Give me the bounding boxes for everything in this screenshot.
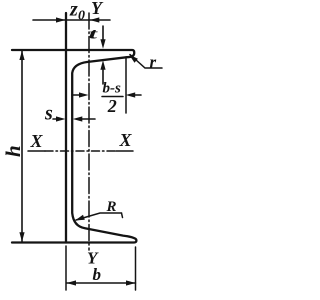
channel profile outline bbox=[12, 50, 136, 243]
arrow R leader (points down-left) bbox=[75, 215, 85, 221]
s dimension right tail bbox=[80, 118, 95, 120]
Y axis (dash-dot centerline) bbox=[88, 13, 90, 250]
X axis dash-dot centerline bbox=[28, 150, 45, 152]
svg-text:s: s bbox=[44, 103, 53, 125]
arrow h down bbox=[19, 232, 24, 242]
bottom h extension line bbox=[12, 242, 66, 244]
arrow (b-s)/2 right (points left) bbox=[126, 92, 136, 97]
web outer face with z0 extension above bbox=[65, 13, 67, 243]
t dimension upper line bbox=[102, 26, 104, 41]
b left extension line bbox=[65, 246, 67, 290]
arrow b right (points right) bbox=[126, 280, 136, 285]
z0 dimension line left part bbox=[33, 19, 110, 21]
arrow b left (points left) bbox=[67, 280, 77, 285]
arrow s right (points left) bbox=[73, 116, 83, 121]
arrow z0 right (points left) bbox=[90, 17, 100, 22]
(b-s)/2 dimension right tail bbox=[133, 94, 141, 96]
arrow t down bbox=[100, 39, 105, 49]
svg-text:2: 2 bbox=[107, 96, 117, 116]
R leader line with shelf bbox=[76, 213, 123, 220]
arrow z0 left (points right) bbox=[56, 17, 66, 22]
svg-text:z: z bbox=[69, 0, 78, 21]
t dimension lower line bbox=[102, 68, 104, 84]
arrow h up bbox=[19, 51, 24, 61]
s dimension left line bbox=[53, 118, 58, 120]
fraction bar of (b-s)/2 bbox=[102, 96, 123, 98]
svg-text:X: X bbox=[30, 131, 44, 151]
b right extension line bbox=[135, 247, 137, 290]
extension line at flange tip for (b-s)/2 bbox=[125, 57, 127, 113]
svg-text:b: b bbox=[93, 265, 102, 284]
svg-text:b-s: b-s bbox=[103, 81, 121, 97]
svg-text:h: h bbox=[1, 145, 25, 157]
svg-text:X: X bbox=[119, 130, 133, 150]
(b-s)/2 dimension left segment bbox=[72, 94, 81, 96]
svg-text:r: r bbox=[150, 53, 157, 72]
r leader line with shelf bbox=[130, 55, 162, 69]
arrow t up bbox=[100, 60, 105, 70]
arrow (b-s)/2 left (points right) bbox=[79, 92, 89, 97]
svg-text:R: R bbox=[106, 199, 117, 215]
h dimension vertical line bbox=[21, 50, 23, 242]
svg-text:0: 0 bbox=[78, 9, 85, 24]
b dimension line bbox=[67, 282, 136, 284]
arrow r leader (points up-left) bbox=[129, 55, 138, 63]
arrow s left (points right) bbox=[56, 116, 66, 121]
